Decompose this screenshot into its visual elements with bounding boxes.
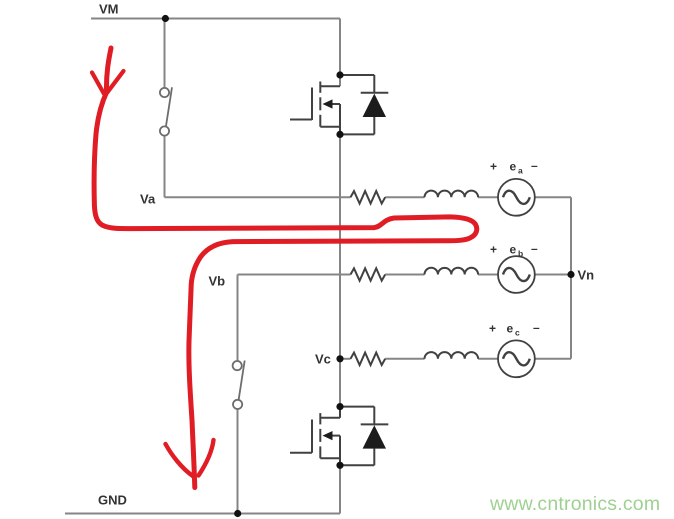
svg-text:b: b [518, 249, 523, 259]
svg-text:www.cntronics.com: www.cntronics.com [489, 493, 660, 515]
svg-text:e: e [507, 322, 514, 336]
svg-text:Vn: Vn [578, 268, 595, 283]
svg-text:Va: Va [140, 192, 156, 207]
svg-text:+: + [490, 243, 497, 257]
svg-text:+: + [489, 322, 496, 336]
svg-text:GND: GND [98, 493, 127, 508]
svg-text:a: a [518, 166, 523, 176]
svg-text:c: c [515, 328, 520, 338]
svg-text:–: – [531, 159, 538, 173]
svg-text:Vb: Vb [209, 274, 226, 289]
svg-text:VM: VM [99, 2, 119, 17]
svg-text:–: – [531, 242, 538, 256]
svg-text:e: e [510, 160, 517, 174]
svg-text:e: e [510, 243, 517, 257]
svg-text:–: – [533, 321, 540, 335]
svg-text:+: + [490, 160, 497, 174]
svg-text:Vc: Vc [315, 352, 331, 367]
